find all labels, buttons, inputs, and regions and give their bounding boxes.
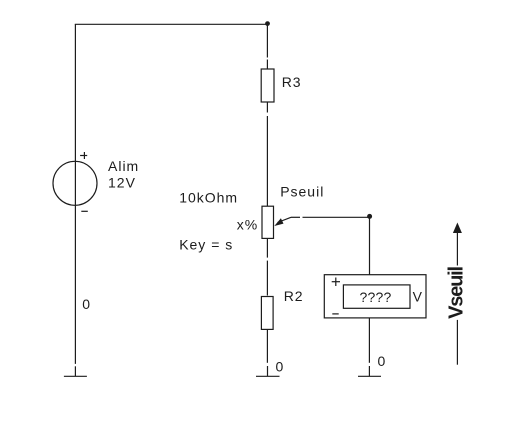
potentiometer body [262,206,274,238]
wire: R3 bottom pin lead [266,102,268,113]
svg-text:????: ???? [360,289,392,305]
svg-text:Key = s: Key = s [179,237,233,253]
node: junction dot wiper [367,214,372,219]
svg-text:V: V [413,289,423,305]
Vseuil arrow head [453,223,462,234]
ground: middle bar [256,375,280,377]
ground: middle stem [267,366,269,376]
voltmeter U1 [324,275,426,318]
wire: junction to voltmeter top [369,216,371,274]
svg-text:x%: x% [237,217,258,233]
node: junction dot top [265,21,270,26]
svg-text:R2: R2 [284,288,304,304]
svg-text:0: 0 [378,353,387,369]
wire: wiper to voltmeter branch [303,216,370,218]
Vseuil arrow shaft upper [456,233,458,266]
wire: left vertical through source [74,24,76,364]
ground: right stem [368,366,370,376]
svg-text:R3: R3 [282,74,302,90]
svg-text:Alim: Alim [108,158,139,174]
Vseuil arrow shaft lower [456,320,458,365]
wire: voltmeter bottom to ground [368,318,370,363]
wire: R2 bottom to ground [266,329,268,362]
voltage source V1 Alim [53,152,97,211]
resistor R3 [261,69,274,102]
wire: potentiometer to R2 [266,261,268,296]
potentiometer wiper arrow [274,217,300,226]
label Alim 12V [108,158,139,190]
svg-text:12V: 12V [108,174,136,190]
svg-text:0: 0 [276,359,285,375]
wire: R3 to potentiometer [266,116,268,206]
resistor R2 [261,297,273,330]
svg-text:Vseuil: Vseuil [446,267,468,319]
svg-text:10kOhm: 10kOhm [179,190,238,206]
wire: potentiometer bottom pin lead [266,238,268,257]
wire: top horizontal from source to node [75,23,268,25]
wire: node to R3 top [266,24,268,57]
ground: left bar [64,375,87,377]
wire: R3 top pin lead [266,60,268,70]
ground: right bar [358,375,381,377]
svg-text:0: 0 [82,296,91,312]
svg-text:Pseuil: Pseuil [280,184,324,200]
ground: left stem [74,366,76,376]
